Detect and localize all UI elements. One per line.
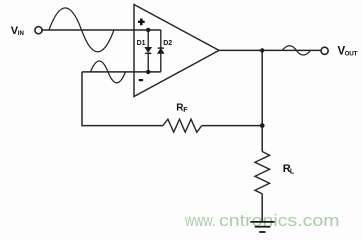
wire output node down to RL xyxy=(261,50,263,151)
junction node bottom of D1 xyxy=(146,70,150,74)
svg-text:F: F xyxy=(183,107,188,114)
wire RF to output node xyxy=(202,125,262,127)
junction node output xyxy=(260,48,264,52)
svg-text:cntronics.com: cntronics.com xyxy=(219,211,340,230)
minus input marker xyxy=(139,79,143,81)
wire op-amp output xyxy=(219,49,321,51)
diode D2 xyxy=(158,30,164,72)
feedback wire from inverting input xyxy=(82,72,163,126)
feedback sine xyxy=(91,61,126,83)
ground xyxy=(250,222,274,232)
svg-text:D1: D1 xyxy=(137,40,146,47)
op-amp U1 xyxy=(134,5,219,97)
svg-text:L: L xyxy=(290,169,295,176)
plus input marker xyxy=(138,19,145,26)
input terminal VIN xyxy=(35,27,42,34)
svg-text:D2: D2 xyxy=(163,40,172,47)
junction node feedback/output xyxy=(260,123,265,128)
resistor RL xyxy=(255,152,270,194)
diode D1 xyxy=(145,30,151,72)
svg-text:OUT: OUT xyxy=(345,51,358,58)
output terminal VOUT xyxy=(321,47,328,54)
input source sine xyxy=(49,8,114,52)
junction node top of D1 xyxy=(146,28,150,32)
resistor RF xyxy=(163,119,202,132)
output sine xyxy=(282,46,310,55)
svg-text:IN: IN xyxy=(18,30,25,37)
svg-text:www.: www. xyxy=(184,211,215,230)
wire VIN to noninverting rail xyxy=(41,29,161,31)
wire inverting rail xyxy=(82,71,161,73)
wire RL to ground xyxy=(261,194,263,222)
